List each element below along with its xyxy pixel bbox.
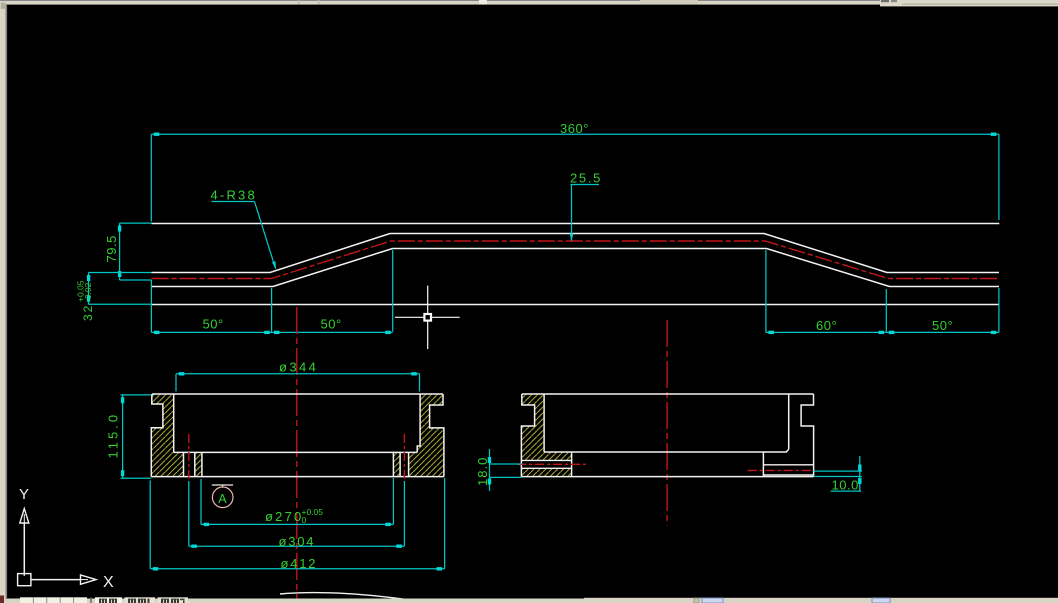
dimension 360deg: [151, 121, 999, 222]
dimension 10.0: [814, 456, 862, 493]
right foot left edge: [762, 452, 764, 477]
svg-text:ø412: ø412: [281, 556, 318, 571]
dimension dia412: [150, 478, 444, 571]
dimension 18.0: [475, 449, 521, 491]
hatch left wall: [151, 394, 173, 452]
right foot left edge: [392, 452, 394, 476]
outline: right outer edge with notch: [430, 394, 444, 477]
dimension dia344: [176, 360, 420, 392]
hatch left wall: [521, 394, 544, 452]
outline: left inner wall: [173, 394, 175, 452]
band top profile polyline: [152, 234, 1000, 273]
right foot hole edges: [763, 464, 813, 466]
outline: right inner wall: [788, 394, 790, 449]
UCS icon: [18, 486, 114, 591]
dimension dia304: [189, 481, 405, 549]
right hole centerline (red): [748, 469, 812, 471]
svg-text:X: X: [103, 574, 114, 591]
outline: left outer edge with notch: [151, 394, 163, 477]
outline: bottom line: [521, 476, 813, 478]
svg-text:50°: 50°: [932, 318, 953, 333]
svg-text:79.5: 79.5: [104, 235, 119, 262]
dimension 25.5 leader: [570, 171, 602, 242]
outline: cavity floor with right chamfer: [544, 449, 789, 452]
svg-text:360°: 360°: [560, 121, 589, 136]
left foot hole edges: [521, 459, 571, 461]
outline: cavity floor: [174, 451, 418, 453]
left bolt hole centerline (red): [188, 434, 190, 479]
svg-text:10.0: 10.0: [832, 478, 859, 493]
vertical centerline (red): [666, 320, 668, 526]
svg-text:4-R38: 4-R38: [211, 188, 257, 203]
svg-text:ø270: ø270: [265, 509, 303, 524]
svg-text:-0.02: -0.02: [83, 282, 93, 302]
outline: top line: [522, 393, 814, 395]
outline: top line: [152, 393, 443, 395]
dimension 50deg (left) and 50deg (second): [151, 317, 392, 335]
outline: left outer edge with notch: [521, 394, 534, 477]
right bolt hole walls: [399, 452, 401, 476]
bottom status strip: [0, 596, 1058, 603]
outline: right outer edge with notch: [801, 394, 814, 477]
svg-text:0: 0: [302, 515, 307, 525]
band red centerline: [152, 241, 1000, 279]
svg-text:18.0: 18.0: [475, 457, 490, 486]
svg-text:Y: Y: [19, 486, 29, 503]
svg-text:50°: 50°: [321, 317, 342, 332]
dimension dia270 +0.05/0: [201, 478, 393, 526]
svg-text:ø344: ø344: [279, 360, 318, 375]
lower outline line: [152, 304, 999, 306]
crosshair cursor: [395, 286, 460, 349]
hatch left foot upper and lower chunks: [521, 452, 571, 460]
outline: right inner wall with ledge: [417, 394, 420, 452]
dimension 32 +0.05/-0.02: [76, 273, 152, 322]
bottom partial arc of next view: [280, 593, 405, 600]
svg-text:A: A: [218, 492, 227, 506]
top toolbar remnant strip: [0, 0, 902, 5]
svg-text:115.0: 115.0: [106, 412, 121, 459]
dimension 115.0: [106, 395, 152, 479]
left hole centerline (red): [517, 463, 586, 465]
upper outline line: [152, 223, 1000, 225]
left bolt hole walls: [183, 452, 185, 476]
band bottom profile polyline: [152, 249, 1000, 287]
right bolt hole centerline (red): [403, 434, 405, 479]
dimension 60deg and 50deg (right): [766, 318, 999, 334]
dimension 79.5: [104, 223, 152, 280]
left foot right edge: [201, 452, 203, 476]
svg-text:25.5: 25.5: [570, 171, 602, 186]
leader 4-R38: [211, 188, 276, 270]
outline: left inner wall: [543, 394, 545, 452]
left toolbar remnant strip: [0, 1, 7, 603]
svg-text:50°: 50°: [203, 317, 224, 332]
svg-text:60°: 60°: [816, 318, 837, 333]
top-right toolbar corner boxes: [880, 0, 1058, 6]
outline: bottom line: [151, 476, 444, 478]
svg-text:ø304: ø304: [279, 534, 316, 549]
left foot right edge: [571, 452, 573, 477]
datum A symbol: [212, 485, 233, 508]
hatch left foot chunks: [151, 452, 183, 476]
main vertical centerline (red): [296, 307, 298, 600]
svg-text:32: 32: [81, 304, 95, 321]
bottom dims of top view: extension lines: [151, 250, 999, 332]
hatch right wall and foot: [409, 394, 444, 477]
